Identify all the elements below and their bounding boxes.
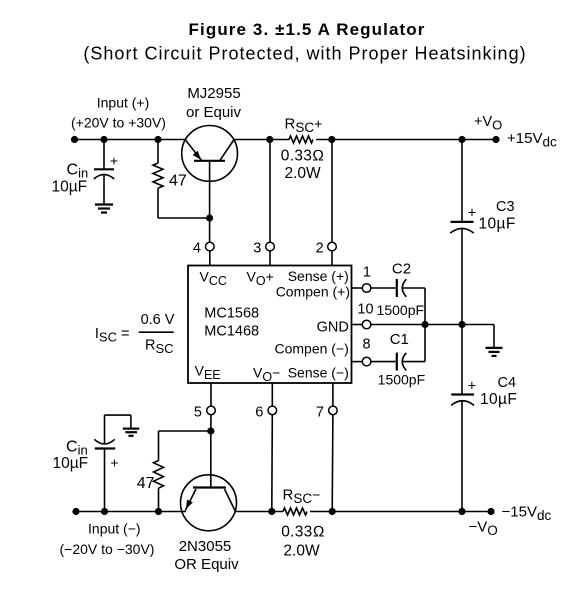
svg-text:2N3055: 2N3055 <box>179 538 232 555</box>
junction base node Q1 <box>206 214 213 221</box>
svg-text:6: 6 <box>255 404 263 420</box>
svg-text:C4: C4 <box>498 375 517 391</box>
wire 47 to base node <box>158 217 210 219</box>
svg-text:Figure 3. ±1.5 A Regulator: Figure 3. ±1.5 A Regulator <box>189 20 426 39</box>
svg-text:MJ2955: MJ2955 <box>187 85 240 102</box>
junction C4 rail bottom <box>458 508 465 515</box>
wire bottom rail right <box>310 511 491 513</box>
svg-text:RSC: RSC <box>145 338 174 357</box>
svg-text:(Short Circuit Protected, with: (Short Circuit Protected, with Proper He… <box>83 44 526 64</box>
wire top rail left <box>74 139 186 141</box>
label 2N3055 OR Equiv <box>174 538 239 573</box>
svg-text:C1: C1 <box>390 331 409 348</box>
junction pin3 node <box>266 136 273 143</box>
junction C3 rail <box>458 136 465 143</box>
wire GND drop <box>493 325 495 348</box>
transistor Q2 2N3055 <box>181 431 237 531</box>
node input(-) terminal <box>72 508 79 515</box>
svg-text:5: 5 <box>194 404 202 420</box>
svg-text:+: + <box>468 378 476 394</box>
svg-text:Sense (−): Sense (−) <box>288 365 349 381</box>
wire bottom rail left <box>76 511 186 513</box>
wire bottom rail mid <box>235 511 283 513</box>
svg-text:10: 10 <box>357 301 373 317</box>
label MJ2955 or Equiv <box>186 85 242 121</box>
svg-text:ISC =: ISC = <box>95 326 130 345</box>
label Cin 10uF (bottom) <box>53 439 89 473</box>
svg-text:+: + <box>110 153 118 169</box>
node +VO terminal <box>474 114 557 150</box>
svg-text:47: 47 <box>137 475 155 492</box>
svg-text:Compen (−): Compen (−) <box>274 341 348 357</box>
node Input (-) label <box>60 521 155 558</box>
junction pin7 node <box>329 508 336 515</box>
svg-text:3: 3 <box>253 240 261 256</box>
svg-text:(−20V to −30V): (−20V to −30V) <box>60 541 155 557</box>
resistor 47 (top) <box>153 140 187 219</box>
pin 4 <box>193 240 214 265</box>
svg-text:C3: C3 <box>496 199 515 215</box>
capacitor Cin (top) <box>94 140 118 205</box>
svg-text:1: 1 <box>363 265 371 281</box>
pin 7 <box>316 383 337 512</box>
svg-text:10µF: 10µF <box>480 391 517 408</box>
node input(+) terminal <box>71 136 78 143</box>
svg-text:0.33Ω: 0.33Ω <box>281 524 325 541</box>
wire right rail upper <box>461 140 463 222</box>
resistor RSC+ <box>281 116 325 183</box>
svg-text:OR Equiv: OR Equiv <box>174 556 239 573</box>
wire base node to 47 bottom <box>159 430 211 432</box>
svg-text:Input (−): Input (−) <box>88 521 141 537</box>
svg-text:+VO: +VO <box>474 114 502 133</box>
junction 47 bottom <box>155 508 162 515</box>
svg-text:0.6 V: 0.6 V <box>141 312 175 328</box>
svg-text:4: 4 <box>193 240 201 256</box>
svg-text:Compen (+): Compen (+) <box>276 284 350 300</box>
svg-text:Sense (+): Sense (+) <box>288 268 349 284</box>
svg-text:1500pF: 1500pF <box>378 372 425 388</box>
resistor RSC- <box>281 487 325 560</box>
wire GND net <box>371 324 494 326</box>
pin 5 <box>194 383 215 431</box>
ground (below Cin top) <box>95 205 113 213</box>
node Input (+) label <box>71 95 166 131</box>
svg-text:8: 8 <box>363 336 371 352</box>
svg-text:+: + <box>110 455 118 471</box>
capacitor C4 <box>451 375 517 512</box>
wire top rail right of Q1 <box>234 139 289 141</box>
formula ISC <box>95 312 175 356</box>
junction Cin top <box>100 136 107 143</box>
junction C2/C1 <box>421 321 428 328</box>
svg-text:2.0W: 2.0W <box>283 543 320 560</box>
pin 1 <box>352 265 371 293</box>
node -VO terminal <box>469 504 552 539</box>
svg-text:(+20V to +30V): (+20V to +30V) <box>71 115 166 131</box>
svg-text:or Equiv: or Equiv <box>186 104 242 121</box>
junction Cin bottom <box>101 508 108 515</box>
wire RSC+ to +VO <box>316 139 496 141</box>
capacitor C1 <box>371 325 425 388</box>
svg-text:1500pF: 1500pF <box>377 302 424 318</box>
wire right rail mid <box>461 325 463 395</box>
junction pin2 node <box>328 136 335 143</box>
junction pin6 node <box>268 508 275 515</box>
op-amp U1 MC1568 box <box>188 266 352 384</box>
svg-text:10µF: 10µF <box>52 179 88 196</box>
svg-text:2.0W: 2.0W <box>285 165 322 182</box>
svg-text:0.33Ω: 0.33Ω <box>281 148 325 165</box>
svg-text:C2: C2 <box>392 261 411 278</box>
transistor Q1 MJ2955 <box>182 125 238 242</box>
resistor 47 (bottom) <box>137 431 164 512</box>
capacitor Cin (bottom) <box>94 415 131 511</box>
pin 6 <box>255 383 276 512</box>
svg-text:7: 7 <box>316 404 324 420</box>
ground (bottom Cin) <box>123 429 139 436</box>
svg-text:10µF: 10µF <box>53 455 89 472</box>
svg-text:47: 47 <box>169 173 187 190</box>
pin 8 <box>352 336 371 366</box>
pin 10 <box>352 301 374 329</box>
svg-text:Input (+): Input (+) <box>97 95 150 111</box>
capacitor C2 <box>371 261 425 325</box>
svg-text:2: 2 <box>316 240 324 256</box>
pin 2 <box>316 140 337 266</box>
svg-text:+: + <box>468 205 476 221</box>
svg-text:MC1568: MC1568 <box>204 306 259 322</box>
pin 3 <box>253 140 274 266</box>
svg-text:10µF: 10µF <box>479 216 516 233</box>
junction rail/GND <box>458 321 465 328</box>
svg-text:MC1468: MC1468 <box>204 324 259 340</box>
capacitor C3 <box>450 199 515 325</box>
junction 47 ohm top <box>154 136 161 143</box>
ground (right) <box>486 348 503 356</box>
junction base node Q2 <box>207 427 214 434</box>
label Cin 10uF (top) <box>52 162 89 196</box>
svg-text:GND: GND <box>317 320 349 336</box>
